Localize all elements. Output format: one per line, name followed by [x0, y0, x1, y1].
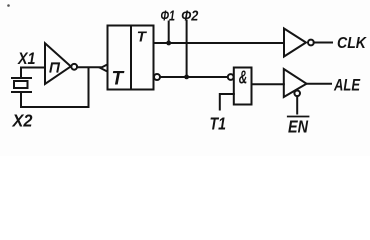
enable bubble — [294, 91, 300, 97]
svg-text:X2: X2 — [12, 111, 33, 131]
stray mark — [7, 4, 10, 7]
AND gate D1 — [234, 67, 252, 105]
wire phase1 bus — [154, 42, 285, 44]
wire inverter output — [77, 66, 100, 68]
ALE tri-state buffer — [284, 69, 307, 97]
wire X1 input — [21, 68, 45, 79]
quartz crystal — [12, 78, 31, 107]
junction phi2 — [184, 75, 189, 80]
AND gate input bubble — [228, 74, 234, 80]
wire phase2 bus — [160, 76, 228, 78]
wire phi1 stub — [168, 22, 170, 44]
wire ALE output — [307, 83, 332, 85]
wire phi2 stub — [186, 21, 188, 77]
junction phi1 — [166, 41, 171, 46]
node EN label with overbar — [288, 117, 309, 137]
wire CLK output — [314, 42, 332, 44]
svg-text:X1: X1 — [17, 49, 35, 68]
svg-text:T1: T1 — [210, 114, 227, 134]
wire AND to ALE buffer — [252, 83, 284, 85]
svg-text:Ф2: Ф2 — [181, 8, 198, 24]
wire enable — [296, 96, 298, 113]
svg-text:EN: EN — [288, 117, 308, 137]
svg-text:Ф1: Ф1 — [161, 8, 176, 24]
inverter U1 Schmitt trigger — [45, 43, 77, 84]
dynamic input wedge — [101, 64, 108, 71]
svg-text:ALE: ALE — [333, 76, 360, 95]
CLK inverting buffer — [284, 29, 314, 57]
T flip-flop divider block — [108, 26, 154, 90]
svg-text:T: T — [112, 69, 125, 90]
wire T1 input — [220, 94, 234, 110]
wire feedback — [21, 68, 89, 107]
svg-text:&: & — [239, 67, 248, 88]
output bubble Q-bar — [154, 74, 160, 80]
svg-text:CLK: CLK — [337, 35, 367, 52]
